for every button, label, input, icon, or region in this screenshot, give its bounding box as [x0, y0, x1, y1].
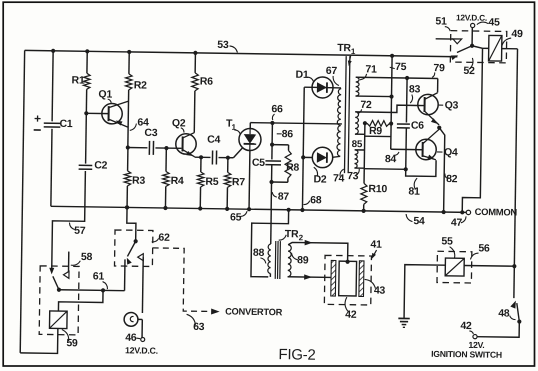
- svg-text:C1: C1: [59, 118, 73, 130]
- node dot 64: [126, 145, 130, 149]
- capacitor C2: [85, 113, 88, 163]
- svg-text:41: 41: [370, 238, 382, 250]
- ground symbol: [398, 317, 409, 319]
- dashed wire 63 to convertor: [152, 248, 212, 312]
- transformer TR1 winding 71: [356, 77, 360, 96]
- wire 89 bottom to cell: [288, 276, 331, 279]
- dashed enclosure 58: [39, 266, 79, 335]
- transformer TR2 winding 88: [268, 244, 271, 274]
- resistor R4: [165, 148, 167, 171]
- svg-text:+: +: [34, 112, 41, 126]
- node dot switch 62 pivot: [134, 239, 138, 243]
- svg-text:75: 75: [395, 61, 407, 73]
- wire T1 anode to node 66: [249, 123, 251, 129]
- node dot Q3 emitter: [437, 126, 441, 130]
- svg-text:43: 43: [374, 285, 386, 297]
- svg-text:IGNITION SWITCH: IGNITION SWITCH: [431, 349, 502, 360]
- svg-text:Q1: Q1: [98, 88, 112, 100]
- svg-text:TR: TR: [337, 42, 351, 54]
- switch 52 rail contact arrowhead: [451, 55, 458, 60]
- svg-text:FIG-2: FIG-2: [278, 346, 315, 364]
- wire 61 row: [59, 289, 125, 292]
- wire 62 feed jog: [127, 207, 137, 241]
- svg-text:R1: R1: [71, 74, 85, 86]
- capacitor C6: [397, 123, 410, 125]
- svg-text:53: 53: [217, 39, 229, 51]
- wire left battery return: [20, 50, 24, 352]
- wire R8 branch bottom: [287, 178, 289, 182]
- wire relay 55 left to ground: [404, 265, 445, 319]
- node dot Q1 base: [84, 111, 88, 115]
- switch 62 lamp contact: [138, 254, 144, 261]
- terminal 45: [471, 23, 475, 27]
- node dot 48: [517, 319, 521, 323]
- svg-text:74: 74: [333, 172, 345, 184]
- svg-text:82: 82: [446, 173, 458, 185]
- switch 52 upper contact: [436, 38, 453, 40]
- svg-text:85: 85: [352, 139, 363, 150]
- svg-text:88: 88: [253, 247, 265, 259]
- svg-text:C4: C4: [207, 134, 221, 146]
- wire 82 column: [438, 128, 445, 212]
- cell electrode hatched left: [331, 260, 336, 296]
- svg-text:56: 56: [478, 242, 490, 254]
- wire bottom common rail: [51, 206, 466, 212]
- wire T1 cathode: [248, 151, 251, 210]
- wire Q4 emitter 81: [406, 160, 436, 177]
- wire R8 branch top: [272, 144, 288, 146]
- node dot 62 feed: [125, 205, 129, 209]
- dashed enclosure 62: [114, 230, 152, 267]
- transistor Q2: [176, 134, 197, 155]
- svg-text:R6: R6: [200, 75, 214, 87]
- wire 87 column to TR2: [270, 210, 273, 244]
- svg-text:CONVERTOR: CONVERTOR: [225, 306, 283, 317]
- wire switch 62 to node 61: [124, 259, 126, 290]
- svg-text:C2: C2: [94, 159, 108, 171]
- node dot 66: [270, 121, 274, 125]
- node dot R2 top: [127, 50, 131, 54]
- switch 58 feed contact: [49, 268, 54, 275]
- svg-text:66: 66: [271, 103, 283, 115]
- wire winding 72 bottom: [355, 133, 365, 135]
- relay 55 coil: [445, 258, 464, 276]
- switch 62 blade: [127, 241, 135, 256]
- diode D1: [312, 77, 333, 98]
- svg-text:87: 87: [278, 191, 290, 203]
- resistor R1: [86, 51, 88, 73]
- dashed enclosure 51: [450, 31, 506, 63]
- capacitor C5: [265, 160, 281, 162]
- node dot R8 top: [270, 143, 274, 147]
- resistor R9: [363, 121, 367, 125]
- resistor R8: [285, 150, 291, 178]
- diode D2: [312, 147, 333, 168]
- svg-text:Q4: Q4: [444, 146, 458, 158]
- svg-text:57: 57: [74, 225, 86, 237]
- svg-text:65: 65: [230, 211, 242, 223]
- transformer TR2 winding 89: [288, 245, 292, 277]
- node dot ignition feed: [512, 264, 516, 268]
- node dot switch 52 pivot: [470, 44, 474, 48]
- svg-text:46: 46: [125, 332, 137, 344]
- svg-text:R8: R8: [286, 162, 300, 174]
- svg-text:61: 61: [93, 270, 105, 282]
- switch 58 lamp-side contact: [63, 271, 69, 278]
- svg-text:54: 54: [413, 215, 425, 227]
- thyristor T1: [239, 128, 261, 150]
- resistor R7: [227, 158, 229, 173]
- svg-text:D1: D1: [295, 69, 309, 81]
- node dot R10 rail: [362, 209, 366, 213]
- svg-text:12V.D.C.: 12V.D.C.: [456, 12, 487, 22]
- svg-text:72: 72: [360, 99, 372, 111]
- svg-text:62: 62: [158, 232, 170, 244]
- wire winding 71 bottom: [356, 95, 392, 98]
- resistor R6: [193, 51, 197, 55]
- wire T1 gate: [233, 148, 242, 158]
- relay 49 coil: [489, 35, 502, 61]
- svg-text:R5: R5: [205, 176, 219, 188]
- wire 88 rail branch: [251, 209, 289, 277]
- terminal 46: [141, 337, 145, 341]
- wire relay 49 left leg to rail: [462, 48, 482, 213]
- svg-text:86: 86: [282, 128, 294, 140]
- switch 48 arm: [517, 303, 520, 321]
- svg-text:C5: C5: [252, 157, 266, 169]
- capacitor C3: [148, 141, 150, 155]
- svg-text:C3: C3: [144, 127, 158, 139]
- svg-text:67: 67: [326, 65, 338, 77]
- svg-text:89: 89: [297, 254, 309, 266]
- lamp 46: [124, 312, 138, 326]
- transformer TR2 core: [274, 241, 277, 279]
- node dot R4 top: [164, 146, 168, 150]
- rail junction dots: [125, 205, 129, 209]
- svg-text:Q3: Q3: [445, 99, 459, 111]
- wire R2 to node 64: [127, 90, 130, 148]
- wire relay 59 to battery return: [20, 328, 58, 353]
- terminal 42 ignition: [473, 335, 477, 339]
- transformer TR1 winding 73: [354, 150, 358, 168]
- wire 57 path: [52, 206, 85, 268]
- svg-text:R3: R3: [132, 175, 146, 187]
- wire relay 55 right to ignition feed: [464, 264, 514, 267]
- svg-text:71: 71: [365, 63, 377, 75]
- wire 89 top to cell: [288, 242, 348, 261]
- svg-text:58: 58: [81, 251, 93, 263]
- capacitor C4: [211, 150, 213, 164]
- svg-text:48: 48: [498, 307, 510, 319]
- wire Q4 base: [391, 148, 416, 150]
- svg-text:TR: TR: [285, 228, 299, 240]
- node dot R1 top: [85, 49, 89, 53]
- capacitor C1: [52, 51, 53, 121]
- wire relay 59 coil top: [58, 290, 103, 312]
- resistor R5: [200, 157, 202, 172]
- svg-text:COMMON: COMMON: [475, 206, 518, 218]
- svg-text:83: 83: [409, 83, 421, 95]
- switch 48 contact: [510, 301, 516, 309]
- node dot 82 rail: [441, 210, 445, 214]
- transformer TR1 core: [344, 56, 346, 173]
- transistor Q4: [416, 139, 437, 160]
- svg-text:49: 49: [511, 28, 523, 40]
- node dot cell electrode: [345, 260, 349, 264]
- node dot 75/71: [389, 94, 393, 98]
- wire winding 71 top to node 79: [356, 77, 438, 78]
- svg-text:D2: D2: [313, 173, 327, 185]
- node dot 61 left: [57, 288, 61, 292]
- cell electrode 42 middle: [339, 261, 357, 296]
- wire C6 column: [405, 78, 408, 122]
- switch 58 blade: [53, 276, 59, 289]
- svg-text:R4: R4: [171, 175, 185, 187]
- svg-text:R2: R2: [134, 79, 148, 91]
- resistor R10: [363, 169, 365, 184]
- wire lamp feed: [141, 257, 144, 313]
- cell electrode hatched right: [359, 261, 364, 297]
- wire Q2 emitter row: [195, 156, 211, 158]
- resistor R3: [127, 148, 129, 171]
- wire node 84 branch: [365, 135, 391, 137]
- svg-text:R7: R7: [232, 176, 246, 188]
- node dot R5 top: [199, 155, 203, 159]
- dashed enclosure 56: [437, 251, 472, 283]
- wire winding 72 top to Q3 base: [355, 105, 417, 113]
- svg-text:12V.D.C.: 12V.D.C.: [125, 345, 158, 355]
- svg-text:55: 55: [441, 235, 453, 247]
- svg-text:C6: C6: [411, 120, 425, 132]
- node dot R7 top: [226, 156, 230, 160]
- wire winding 73 ends: [355, 149, 365, 151]
- dashed enclosure 41: [324, 255, 371, 305]
- relay 59 coil: [49, 311, 67, 329]
- node dot C1 top: [51, 49, 55, 53]
- wire ignition terminal: [477, 321, 519, 337]
- wire diode column 68: [302, 87, 304, 210]
- svg-text:51: 51: [435, 15, 447, 27]
- switch 52 blade: [457, 46, 472, 53]
- transformer TR1 primary winding: [337, 89, 341, 157]
- wire relay 49 right leg ignition feed: [514, 49, 518, 298]
- wire node 85 column: [363, 123, 366, 168]
- wire 169 row: [364, 168, 405, 171]
- resistor R2: [128, 52, 130, 74]
- transistor Q1: [102, 103, 123, 124]
- wire top supply rail 53: [25, 50, 458, 56]
- svg-text:Q2: Q2: [172, 117, 186, 129]
- terminal COMMON 47: [466, 210, 470, 214]
- svg-text:47: 47: [451, 217, 463, 229]
- transistor Q3: [418, 94, 439, 115]
- node dot 59 top: [101, 288, 105, 292]
- svg-text:45: 45: [488, 16, 500, 28]
- svg-text:59: 59: [66, 337, 78, 349]
- svg-text:68: 68: [310, 194, 322, 206]
- wire 12V to relay 49: [472, 46, 483, 49]
- transformer TR1 winding 72: [355, 112, 359, 134]
- wire node 64 row: [128, 147, 148, 149]
- svg-text:52: 52: [463, 65, 475, 77]
- svg-text:R9: R9: [369, 125, 383, 137]
- switch 52 feed wire: [471, 28, 473, 46]
- svg-text:73: 73: [347, 170, 359, 182]
- wire 79 corner to Q3 collector: [437, 78, 439, 92]
- node dot C6 top: [405, 76, 409, 80]
- svg-text:42: 42: [460, 320, 472, 332]
- svg-text:R10: R10: [368, 183, 387, 195]
- node dot C6 bottom: [404, 167, 408, 171]
- wire 86 column: [271, 123, 274, 159]
- wire 75 column: [390, 54, 394, 58]
